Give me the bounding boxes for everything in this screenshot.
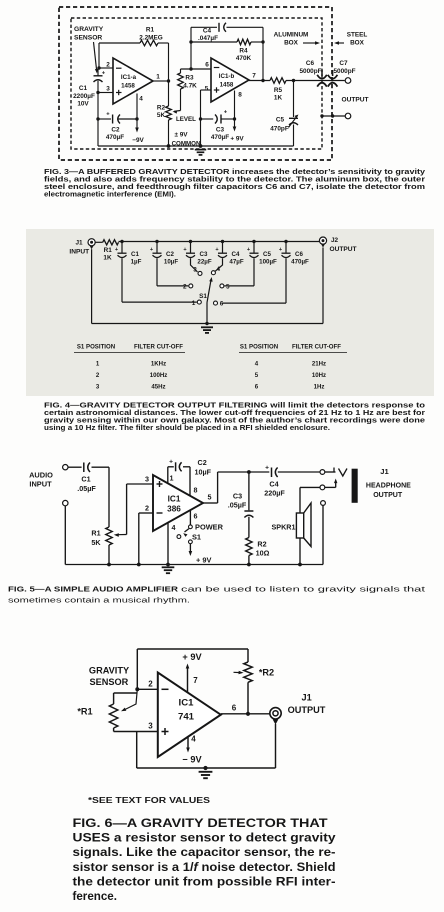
svg-text:386: 386 [167,505,181,514]
resistor R4 [237,39,251,45]
ground audio [162,566,175,568]
svg-text:8: 8 [194,485,198,494]
svg-text:1: 1 [192,300,196,307]
svg-text:the detector unit from possibl: the detector unit from possible RFI inte… [73,875,336,888]
svg-text:*SEE TEXT FOR VALUES: *SEE TEXT FOR VALUES [88,795,210,805]
svg-text:FIG. 5—A SIMPLE AUDIO AMPLIFIE: FIG. 5—A SIMPLE AUDIO AMPLIFIER [8,585,179,594]
svg-text:C1: C1 [79,85,88,92]
svg-text:certain astronomical distances: certain astronomical distances. The lowe… [44,410,425,417]
wire output top rail [218,471,270,473]
svg-text:47µF: 47µF [229,258,243,265]
junction C4 [221,240,224,243]
svg-text:FIG. 4—GRAVITY DETECTOR OUTPUT: FIG. 4—GRAVITY DETECTOR OUTPUT FILTERING… [44,403,425,410]
svg-text:C5: C5 [276,117,285,124]
plus marker IC1-a [116,92,122,94]
arrow +9V audio [189,544,191,553]
wire C2 to contact [156,258,158,286]
connector J2 output [319,237,326,244]
capacitor C4 audio [271,468,273,478]
svg-text:C1: C1 [131,251,139,258]
svg-text:INPUT: INPUT [29,480,52,489]
junction C1 [120,240,123,243]
wire C3 column [248,472,250,510]
svg-text:C6: C6 [295,251,303,258]
wire R2 top [247,649,249,662]
svg-text:SENSOR: SENSOR [74,35,102,42]
minus marker IC1-b [214,67,220,69]
svg-text:USES a resistor sensor to dete: USES a resistor sensor to detect gravity [73,832,337,845]
svg-text:S1: S1 [192,533,201,542]
table rule right [239,352,347,354]
svg-text:−9V: −9V [132,137,144,144]
wire S1 common [206,303,208,324]
wire C3 to contact [191,258,198,272]
svg-text:C3: C3 [200,251,208,258]
svg-text:C4: C4 [269,480,278,489]
wire pin2 audio [139,512,153,514]
wire feedback rail [99,42,140,44]
feedthrough capacitor C6 [321,70,323,76]
wire shield tie [322,115,345,117]
svg-text:45Hz: 45Hz [151,384,165,391]
svg-text:4.7K: 4.7K [183,82,197,89]
svg-text:R1: R1 [146,27,155,34]
wire C1 to R1 [92,466,110,468]
capacitor C4 [222,242,224,253]
switch contact 1 [197,300,201,304]
svg-text:R2: R2 [257,540,266,549]
svg-text:OUTPUT: OUTPUT [288,705,326,715]
svg-text:POWER: POWER [195,522,224,531]
svg-text:S1 POSITION: S1 POSITION [240,344,278,351]
R1 wiper g6 [124,689,137,710]
resistor R1 filter [103,240,119,245]
svg-text:AUDIO: AUDIO [29,471,53,480]
pin 4 arrow -9V [187,737,189,749]
wire pin7 out [249,80,270,82]
wire input2 down [64,506,66,565]
power switch S1 [189,510,191,525]
svg-text:OUTPUT: OUTPUT [341,97,368,104]
svg-text:3: 3 [193,266,197,273]
svg-text:1: 1 [170,473,174,482]
svg-text:5000pF: 5000pF [299,68,321,75]
R1 wiper audio [117,534,127,536]
wire filter rail [119,241,321,243]
svg-text:+ 9V: + 9V [230,136,244,143]
wire J1 to R1 [95,241,103,243]
svg-text:C6: C6 [306,60,315,67]
svg-text:3: 3 [106,86,110,93]
arrow -9V supply [136,119,138,129]
svg-text:1K: 1K [274,95,283,102]
minus marker 386 [157,512,163,514]
wire sleeve down [322,505,324,564]
svg-text:*R2: *R2 [259,668,274,678]
resistor R1 g6 [109,704,117,728]
svg-text:5: 5 [205,86,209,93]
wire bottom rail audio [65,564,323,566]
speaker SPKR1 [296,513,303,538]
wire C5 to contact [253,258,255,286]
wire wiper to pin3 [127,483,153,485]
wire pin2 g6 [137,688,158,690]
wire pin6 g6 [221,713,270,715]
feedthrough capacitor C7 [332,70,334,76]
jack terminal ring [320,485,325,490]
svg-text:5K: 5K [157,112,166,119]
svg-text:5: 5 [208,493,212,502]
svg-text:C4: C4 [203,28,212,35]
wire pin3 g6 [114,731,158,733]
svg-text:220µF: 220µF [264,489,285,498]
capacitor C3 audio [244,510,253,512]
svg-text:470K: 470K [236,55,252,62]
svg-text:22µF: 22µF [197,258,211,265]
svg-text:C1: C1 [81,475,90,484]
svg-text:2200µF: 2200µF [73,93,95,100]
jack terminal sleeve [321,501,326,506]
figure 4 background [26,229,434,396]
svg-text:fields, and also adds frequenc: fields, and also adds frequency stabilit… [44,177,425,184]
svg-text:+: + [265,465,269,472]
svg-text:470µF: 470µF [106,134,124,141]
svg-text:470µF: 470µF [211,134,229,141]
svg-text:5: 5 [226,283,230,290]
capacitor C4 [218,23,220,32]
svg-text:1: 1 [156,74,160,81]
plus marker IC1-b [214,89,220,91]
wire opamp-a out [153,80,169,82]
svg-text:R1: R1 [91,529,100,538]
plus marker 386 [157,483,163,485]
wire left column [97,93,99,147]
svg-text:100Hz: 100Hz [150,372,168,379]
wire pin4 [136,94,138,120]
wire C2 rail [98,118,111,120]
wire C4/R4 loop [191,26,217,28]
junction C2 [155,240,158,243]
svg-text:10µF: 10µF [164,258,178,265]
op-amp IC1-b [211,58,249,102]
wire C6 to contact [285,258,287,303]
plus marker 741 [162,731,169,733]
wire R2 bottom [168,120,170,146]
svg-text:7: 7 [193,676,198,685]
R2 wiper g6 [234,671,241,673]
resistor R5 [270,78,286,84]
switch contact 4 [211,271,215,275]
svg-text:10Hz: 10Hz [312,372,326,379]
svg-text:6: 6 [194,512,198,521]
svg-text:± 9V: ± 9V [174,132,188,139]
J1 lug [90,246,94,250]
svg-text:OUTPUT: OUTPUT [373,490,402,499]
capacitor C2 [156,242,158,253]
svg-text:470µF: 470µF [291,258,309,265]
wire speaker bottom [299,538,301,565]
capacitor C6 [285,242,287,253]
svg-text:IC1: IC1 [179,698,195,709]
R1 top stub [113,693,115,704]
wire top-rail left leg [190,42,192,69]
capacitor C2 [112,115,114,124]
svg-text:4: 4 [172,523,176,532]
svg-text:GRAVITY: GRAVITY [89,666,129,676]
wire top rail g6 [137,648,248,650]
svg-text:J1: J1 [380,467,389,476]
J1 out lug [273,719,279,724]
wire pin3 [98,92,113,94]
wire pin5 column [200,90,202,146]
svg-text:2: 2 [148,680,153,689]
svg-text:sistor sensor is a 1/f noise d: sistor sensor is a 1/f noise detector. S… [73,861,336,874]
headphone jack body [352,469,358,503]
svg-text:R4: R4 [239,48,248,55]
svg-text:C2: C2 [198,458,207,467]
capacitor C3 [190,242,192,253]
svg-text:10Ω: 10Ω [256,549,270,558]
wire pin2 [98,67,113,69]
svg-text:J1: J1 [75,240,83,247]
op-amp IC1 741 [158,673,221,758]
svg-text:signals. Like the capacitor se: signals. Like the capacitor sensor, the … [73,846,336,859]
junction C3 [189,240,192,243]
R2 wiper [180,89,182,111]
wire common rail [98,145,294,147]
svg-text:ference.: ference. [73,890,117,903]
connector J1 input [88,239,95,246]
svg-text:SENSOR: SENSOR [89,677,128,687]
svg-text:.05µF: .05µF [77,484,96,493]
svg-text:2: 2 [183,283,187,290]
pin 4 stub [167,523,169,565]
svg-text:100µF: 100µF [259,258,277,265]
capacitor C1 [121,242,123,253]
aluminum box arrow [303,42,317,44]
svg-text:10µF: 10µF [195,468,212,477]
svg-text:1µF: 1µF [131,258,142,265]
svg-text:5K: 5K [91,538,101,547]
svg-text:using a 10 Hz filter. The filt: using a 10 Hz filter. The filter should … [44,425,330,432]
svg-text:+ 9V: + 9V [182,652,202,662]
capacitor C5 [253,242,255,253]
svg-text:2.2MEG: 2.2MEG [139,35,162,42]
svg-text:1458: 1458 [220,82,234,89]
wire C5 column [293,81,295,118]
wire R2 bottom g6 [247,682,249,714]
wire to R2 [168,81,170,106]
svg-text:INPUT: INPUT [69,248,89,255]
svg-text:R1: R1 [104,247,113,254]
svg-text:FILTER CUT-OFF: FILTER CUT-OFF [292,344,341,351]
svg-text:*R1: *R1 [77,706,92,716]
svg-text:C7: C7 [339,60,348,67]
gravity sensor leader [94,42,97,70]
wire bottom rail g6 [137,767,276,769]
junction C6 [284,240,287,243]
svg-text:5000pF: 5000pF [333,68,355,75]
svg-text:S1 POSITION: S1 POSITION [77,344,115,351]
svg-text:6: 6 [205,62,209,69]
wire R2 bottom audio [248,556,250,565]
svg-text:3: 3 [148,722,153,731]
svg-text:21Hz: 21Hz [312,361,326,368]
potentiometer R2 g6 [244,662,252,682]
svg-text:J2: J2 [331,237,339,244]
svg-text:C4: C4 [232,251,240,258]
wire pin5 [201,89,212,91]
wire C1 to contact [121,258,123,302]
switch contact 3 [198,271,202,275]
resistor R1 [140,40,158,46]
pin 7 arrow +9V [187,667,189,692]
R1 bottom stub [113,728,115,732]
op-amp IC1-a [113,58,153,104]
switch contact 2 [189,284,193,288]
svg-text:7: 7 [252,73,256,80]
svg-text:steel enclosure, and feedthrou: steel enclosure, and feedthrough filter … [44,184,425,191]
svg-text:741: 741 [178,712,195,723]
switch S1 wiper [207,280,211,303]
input terminal top [63,465,68,470]
output terminal shield [345,113,351,119]
junction C5 [252,240,255,243]
svg-text:470pF: 470pF [270,126,289,133]
plug tip symbol [333,468,335,473]
svg-text:8: 8 [238,92,242,99]
potentiometer R1 5K [106,527,112,545]
svg-text:C5: C5 [263,251,271,258]
svg-text:IC1-a: IC1-a [121,74,137,81]
svg-text:sometimes contain a musical rh: sometimes contain a musical rhythm. [8,596,190,605]
svg-text:6: 6 [220,301,224,308]
steel box arrow [337,42,344,44]
ground common [195,149,206,151]
wire R1 bottom [108,545,110,565]
svg-text:IC1-b: IC1-b [219,73,235,80]
svg-text:C2: C2 [111,127,120,134]
ground filter [201,326,213,328]
potentiometer R2 LEVEL [166,106,172,120]
wire bottom return [91,249,93,323]
arrow +9V supply a [234,119,236,128]
wire pin6 [181,68,212,70]
svg-text:HEADPHONE: HEADPHONE [366,480,411,489]
svg-text:S1: S1 [199,293,207,300]
svg-text:.05µF: .05µF [228,501,247,510]
svg-text:BOX: BOX [284,40,299,47]
wire C4 to contact [215,258,222,271]
resistor R3 [178,73,184,89]
svg-text:SPKR1: SPKR1 [272,522,296,531]
minus marker 741 [162,688,169,690]
capacitor C1 audio [83,463,85,473]
svg-text:gravity sensing within our own: gravity sensing within our own galaxy. M… [44,418,425,425]
svg-text:C2: C2 [166,251,174,258]
svg-text:can be used to listen to gravi: can be used to listen to gravity signals… [181,585,426,594]
aluminum box (inner dashed shield) [71,18,322,149]
svg-text:C3: C3 [216,127,225,134]
svg-text:electromagnetic interference (: electromagnetic interference (EMI). [44,192,176,199]
svg-text:OUTPUT: OUTPUT [329,246,356,253]
svg-text:1KHz: 1KHz [151,361,166,368]
svg-text:− 9V: − 9V [182,755,202,765]
svg-text:2: 2 [145,504,149,513]
steel box (outer dashed shield) [59,7,332,160]
table rule left [74,352,185,354]
wire input to C1 [68,466,82,468]
wire tip to plug [325,471,336,473]
svg-text:C3: C3 [233,492,242,501]
minus marker IC1-a [116,67,122,69]
wire pin5 out [203,502,218,504]
capacitor C5 [289,117,298,119]
svg-text:+: + [169,459,173,466]
svg-text:FILTER CUT-OFF: FILTER CUT-OFF [134,344,183,351]
op-amp IC1 386 [153,475,203,531]
svg-text:1458: 1458 [121,83,135,90]
svg-text:ALUMINUM: ALUMINUM [274,32,309,39]
svg-text:1K: 1K [103,254,112,261]
svg-text:4: 4 [191,735,196,744]
output terminal hot [345,78,351,84]
capacitor C3 [201,118,214,120]
svg-text:4: 4 [139,96,143,103]
svg-text:BOX: BOX [350,40,365,47]
wire pin8 [234,91,236,120]
svg-text:R2: R2 [157,105,166,112]
switch contact 5 [220,284,224,288]
svg-text:3: 3 [145,475,149,484]
connector J1 out [270,708,281,719]
svg-text:R5: R5 [274,87,283,94]
svg-text:+ 9V: + 9V [196,556,211,565]
svg-text:GRAVITY: GRAVITY [74,26,104,33]
svg-text:J1: J1 [301,693,311,703]
svg-text:LEVEL: LEVEL [176,116,196,123]
resistor R2 10ohm [246,538,252,556]
jack terminal tip [320,470,325,475]
ground g6 [199,771,213,773]
wire output down [275,724,277,768]
svg-text:FIG. 3—A BUFFERED GRAVITY DETE: FIG. 3—A BUFFERED GRAVITY DETECTOR incre… [44,169,425,176]
svg-text:FIG. 6—A GRAVITY DETECTOR THAT: FIG. 6—A GRAVITY DETECTOR THAT [73,817,328,830]
svg-text:1Hz: 1Hz [314,384,325,391]
wire pin3 ground leg [136,732,138,769]
switch contact 6 [214,301,218,305]
jack switch arrow [335,481,337,487]
capacitor C2 audio [167,467,169,484]
svg-text:IC1: IC1 [168,495,181,504]
svg-text:10V: 10V [77,101,89,108]
J2 lug [321,244,325,248]
svg-text:6: 6 [232,703,237,712]
wire speaker top [299,487,301,513]
svg-text:STEEL: STEEL [347,32,368,39]
svg-text:R3: R3 [185,74,194,81]
svg-text:.047µF: .047µF [198,35,218,42]
capacitor C1 (gravity sensor) [97,68,99,76]
input terminal bottom [63,500,68,505]
svg-text:4: 4 [217,266,221,273]
